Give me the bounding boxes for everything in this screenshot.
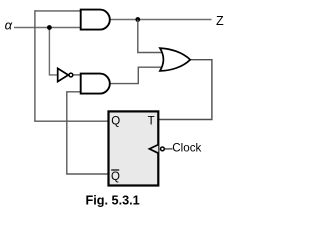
svg-text:T: T xyxy=(148,115,155,127)
clock edge triangle on flip-flop xyxy=(149,145,158,154)
svg-text:α: α xyxy=(5,17,13,32)
wire alpha branch down to inverter xyxy=(49,28,58,75)
OR gate U4 xyxy=(160,48,190,71)
wire OR output to T input of flip-flop xyxy=(158,60,212,120)
AND gate U1 top xyxy=(81,10,110,30)
svg-text:Clock: Clock xyxy=(172,141,201,154)
svg-text:Q: Q xyxy=(111,171,120,183)
wire top feedback horizontal Q to AND1 top input xyxy=(35,10,81,12)
svg-text:Q: Q xyxy=(111,115,120,127)
wire J2 branch down to OR top input xyxy=(138,20,163,53)
node junction J2 on Z wire xyxy=(135,17,140,22)
node junction J1 on alpha wire xyxy=(47,25,52,30)
T flip-flop U5 body xyxy=(109,111,159,185)
clock negation bubble xyxy=(161,147,165,151)
wire AND1 output to Z xyxy=(110,19,212,21)
AND gate U3 middle xyxy=(81,74,110,94)
wire AND2 output to OR bottom input xyxy=(110,67,163,83)
wire left vertical Q feedback xyxy=(34,10,36,121)
wire Q output horizontal xyxy=(34,120,108,122)
pin label Qbar xyxy=(111,170,120,183)
svg-text:Z: Z xyxy=(216,14,224,28)
wire inverter output to AND2 xyxy=(73,74,81,76)
svg-text:Fig. 5.3.1: Fig. 5.3.1 xyxy=(85,194,139,208)
inverter U2 xyxy=(58,68,73,81)
wire Qbar feedback to AND2 bottom input xyxy=(67,92,109,174)
wire alpha input to AND1 xyxy=(14,27,81,29)
wire clock stub xyxy=(165,148,173,150)
